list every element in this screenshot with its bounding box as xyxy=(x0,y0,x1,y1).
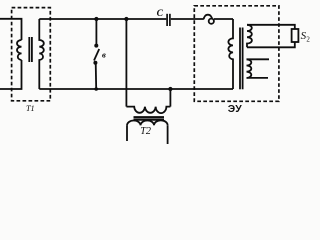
svg-text:в: в xyxy=(102,49,106,59)
svg-text:ЭУ: ЭУ xyxy=(228,104,242,115)
svg-text:2: 2 xyxy=(306,36,310,44)
svg-text:Т1: Т1 xyxy=(26,104,35,113)
svg-text:Т2: Т2 xyxy=(140,126,151,137)
svg-text:C: C xyxy=(157,9,164,19)
